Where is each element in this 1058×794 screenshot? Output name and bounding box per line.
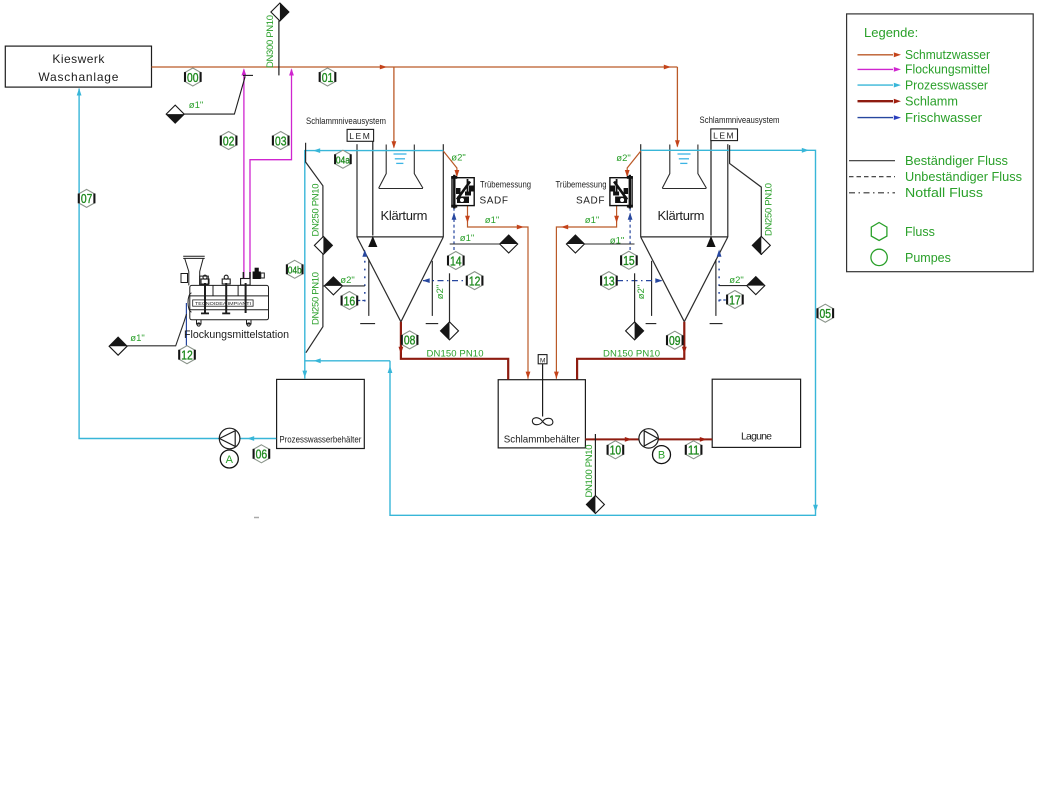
svg-text:Klärturm: Klärturm: [658, 208, 705, 223]
valve ø1 near node 00: [166, 105, 184, 123]
legend dash-dot line sample: [849, 186, 983, 200]
Flockungsmittelstation unit: [181, 256, 269, 326]
node 09: [667, 331, 683, 349]
svg-text:ø2": ø2": [636, 285, 647, 299]
node 07: [79, 189, 95, 207]
tower 1 probe rod left: [360, 260, 375, 324]
tank Lagune: [712, 379, 800, 447]
node 03: [273, 132, 289, 150]
valve ø2 drain tower 2: [747, 277, 765, 295]
valve ø1 below SADF 2: [566, 235, 584, 253]
svg-text:12: 12: [469, 274, 481, 288]
station brand plate: [193, 300, 253, 306]
svg-text:ø1": ø1": [189, 100, 203, 111]
wire Prozesswasser tower 1 overflow: [305, 151, 444, 379]
wire ø2 sample line tower 2 to SADF 2: [627, 151, 641, 177]
svg-text:Schlamm: Schlamm: [905, 94, 958, 108]
wire ø1 sample branch near node 00: [184, 75, 254, 114]
wire ø2 drain branch tower 2: [719, 285, 765, 287]
tower 1 LEM box: [347, 129, 374, 141]
svg-text:15: 15: [623, 254, 635, 268]
svg-text:ø1": ø1": [460, 233, 474, 244]
wire ø1 line SADF 1 to Schlammbehälter: [468, 206, 529, 379]
svg-text:Frischwasser: Frischwasser: [905, 111, 982, 125]
legend circle symbol: [871, 249, 951, 265]
station hopper: [183, 255, 205, 257]
legend dashed line sample: [849, 170, 1022, 184]
tower 1 feed well: [379, 145, 423, 189]
legend box: [847, 14, 1034, 272]
svg-text:Fluss: Fluss: [905, 225, 935, 239]
node 15: [621, 251, 637, 269]
node 12 at cone 1: [467, 272, 483, 290]
node 04b: [287, 260, 303, 278]
svg-text:DN150 PN10: DN150 PN10: [427, 349, 484, 360]
valve ø2 drain tower 1: [324, 277, 342, 295]
node 10: [608, 441, 624, 459]
svg-text:LEM: LEM: [713, 131, 735, 141]
svg-text:Kieswerk: Kieswerk: [52, 52, 105, 66]
svg-text:ø1": ø1": [485, 215, 499, 226]
legend solid line sample: [849, 154, 1008, 168]
stray mark: [254, 517, 259, 519]
svg-text:ø2": ø2": [616, 153, 630, 164]
wire Frischwasser supply to station: [185, 303, 187, 346]
svg-text:DN250 PN10: DN250 PN10: [764, 183, 775, 236]
svg-text:DN150 PN10: DN150 PN10: [603, 349, 660, 360]
tower 1 water level symbol: [394, 154, 407, 163]
legend Schmutzwasser sample: [858, 48, 991, 62]
svg-text:Klärturm: Klärturm: [381, 208, 428, 223]
legend hexagon symbol: [871, 223, 935, 241]
svg-text:Flockungsmittelstation: Flockungsmittelstation: [184, 329, 289, 341]
wire DN250 overflow pipe tower 1: [306, 143, 323, 353]
node 04a: [335, 150, 351, 168]
svg-text:11: 11: [688, 444, 700, 458]
node 17: [727, 291, 743, 309]
svg-text:DN250 PN10: DN250 PN10: [311, 184, 322, 237]
svg-text:SADF: SADF: [576, 196, 605, 207]
svg-text:04b: 04b: [288, 265, 302, 277]
svg-text:Schmutzwasser: Schmutzwasser: [905, 48, 990, 62]
node 16: [342, 292, 358, 310]
svg-text:00: 00: [187, 71, 199, 85]
svg-text:03: 03: [275, 134, 287, 148]
svg-text:08: 08: [404, 334, 416, 348]
svg-text:Legende:: Legende:: [864, 25, 918, 40]
svg-text:Flockungsmittel: Flockungsmittel: [905, 63, 990, 77]
wire Prozesswasser return to Kieswerk via pump A: [79, 89, 276, 439]
svg-text:LEM: LEM: [349, 131, 371, 141]
svg-text:07: 07: [81, 192, 93, 206]
node 05: [818, 304, 834, 322]
svg-text:Prozesswasserbehälter: Prozesswasserbehälter: [279, 435, 361, 446]
svg-text:TECNOIDEA IMPIANTI: TECNOIDEA IMPIANTI: [195, 301, 251, 306]
wire ø1 line below SADF 1: [450, 243, 500, 245]
svg-text:12: 12: [181, 349, 193, 363]
wire ø1 line SADF 2 to Schlammbehälter: [556, 206, 616, 379]
svg-text:Trübemessung: Trübemessung: [556, 180, 607, 191]
svg-text:ø1": ø1": [130, 333, 144, 344]
node 14: [448, 252, 464, 270]
svg-text:Lagune: Lagune: [741, 431, 772, 443]
svg-text:Schlammniveausystem: Schlammniveausystem: [306, 116, 386, 126]
svg-text:Waschanlage: Waschanlage: [38, 70, 118, 84]
svg-text:Beständiger Fluss: Beständiger Fluss: [905, 154, 1008, 168]
wire Schlamm Schlammbehälter to Lagune via pump B: [585, 438, 712, 440]
node 02: [221, 132, 237, 150]
station feet: [197, 320, 202, 324]
pump B: [639, 429, 658, 448]
svg-text:Unbeständiger Fluss: Unbeständiger Fluss: [905, 170, 1022, 184]
svg-text:DN100 PN10: DN100 PN10: [584, 445, 595, 498]
valve ø2 drain cone 1: [441, 322, 459, 340]
svg-text:10: 10: [610, 444, 622, 458]
node 08: [402, 331, 418, 349]
node 11: [686, 441, 702, 459]
svg-text:17: 17: [729, 293, 741, 307]
tower 2 feed well: [662, 145, 706, 189]
box Kieswerk Waschanlage: [5, 46, 151, 87]
valve DN250 tower 2: [752, 236, 770, 254]
instrument SADF 2 (Trübemessung): [610, 175, 633, 209]
wire DN250 overflow pipe tower 2: [730, 145, 762, 255]
station tank body: [190, 285, 269, 319]
wire Flockungsmittel line 02: [243, 70, 245, 280]
svg-text:16: 16: [344, 294, 356, 308]
wire Frischwasser dashed SADF 2 drain: [629, 208, 631, 252]
wire node 17 connector: [719, 299, 727, 301]
valve DN250 tower 1: [314, 236, 332, 254]
wire DN100 drain Schlammbehälter: [594, 434, 596, 496]
node 01: [320, 68, 336, 86]
clarifier tower 1 (left Klärturm) walls: [357, 144, 443, 322]
svg-text:Prozesswasser: Prozesswasser: [905, 78, 988, 92]
svg-text:A: A: [226, 454, 234, 466]
pipe size labels green: [130, 15, 774, 498]
tank Schlammbehälter: [498, 380, 585, 448]
svg-text:ø2": ø2": [435, 285, 446, 299]
svg-text:Notfall Fluss: Notfall Fluss: [905, 186, 983, 200]
svg-text:05: 05: [820, 307, 832, 321]
svg-text:ø1": ø1": [585, 215, 599, 226]
legend Frischwasser sample: [858, 111, 983, 125]
tower 2 level sensor rod: [710, 141, 712, 236]
svg-text:M: M: [540, 357, 545, 364]
svg-text:ø2": ø2": [729, 275, 743, 286]
svg-text:Schlammbehälter: Schlammbehälter: [504, 434, 580, 446]
pump A tag circle: [220, 450, 238, 468]
tank Prozesswasserbehälter: [277, 379, 365, 448]
legend Prozesswasser sample: [858, 78, 989, 92]
valve DN300 top: [271, 3, 289, 21]
wire Schmutzwasser branch to tower 2: [676, 67, 678, 147]
legend Schlamm sample: [858, 94, 959, 108]
pump A: [219, 428, 240, 449]
svg-text:13: 13: [603, 274, 615, 288]
svg-text:09: 09: [669, 334, 681, 348]
valve ø1 station: [109, 337, 127, 355]
wire node 16 connector: [358, 300, 365, 302]
wire Notfall dash-dot into cone 1 (node 12): [423, 280, 467, 282]
clarifier tower 2 (right Klärturm) walls: [641, 144, 728, 322]
node 13: [601, 272, 617, 290]
label Kieswerk Waschanlage: [38, 52, 118, 84]
node 00: [185, 68, 201, 86]
wire Prozesswasser tower 2 overflow loop: [390, 150, 816, 515]
wire Notfall dash-dot into cone 2 (node 13): [617, 280, 662, 282]
station mixers: [201, 272, 250, 313]
svg-text:06: 06: [256, 448, 268, 462]
svg-text:Schlammniveausystem: Schlammniveausystem: [700, 115, 780, 125]
wire ø1 water line to station: [127, 314, 186, 346]
legend Flockungsmittel sample: [858, 63, 991, 77]
svg-text:B: B: [658, 450, 665, 462]
tower 1 probe rod right: [426, 261, 439, 324]
svg-text:SADF: SADF: [479, 196, 508, 207]
wire DN300 vent line: [278, 21, 280, 76]
agitator M-box on Schlammbehälter: [538, 355, 547, 417]
node 12 at station: [179, 346, 195, 364]
pump B tag circle: [653, 446, 671, 464]
svg-text:Pumpes: Pumpes: [905, 251, 951, 265]
valve ø2 drain cone 2: [626, 322, 644, 340]
instrument SADF 1 (Trübemessung): [451, 175, 474, 209]
wire Notfall dotted vertical cone 1: [364, 253, 366, 302]
svg-text:DN250 PN10: DN250 PN10: [311, 272, 322, 325]
station motor block: [253, 272, 261, 280]
tower 2 probe rod left: [646, 261, 657, 324]
wire ø2 drain line cone 2: [634, 273, 636, 322]
wire Schmutzwasser branch to tower 1: [393, 67, 395, 148]
wire ø2 drain branch tower 1: [323, 285, 365, 287]
wire ø2 drain line cone 1: [449, 273, 451, 322]
wire Notfall dotted vertical cone 2: [718, 253, 720, 302]
tower 2 water level symbol: [678, 154, 691, 163]
svg-text:Trübemessung: Trübemessung: [480, 180, 531, 191]
wire ø2 sample line tower 1 to SADF 1: [443, 151, 457, 177]
agitator propeller: [532, 418, 553, 426]
svg-text:01: 01: [322, 71, 334, 85]
svg-text:14: 14: [450, 254, 462, 268]
svg-text:04a: 04a: [336, 155, 350, 167]
tower 1 level sensor rod: [372, 141, 374, 235]
svg-text:ø2": ø2": [451, 153, 465, 164]
node 06: [254, 445, 270, 463]
wire Flockungsmittel line 03: [250, 70, 292, 279]
wire Frischwasser dashed SADF 1 drain: [453, 208, 455, 252]
wire Schlamm tower 2 to Schlammbehälter: [577, 322, 684, 380]
wire ø1 line below SADF 2: [584, 243, 635, 245]
tower 2 probe rod right: [710, 260, 723, 324]
svg-text:ø1": ø1": [610, 236, 624, 247]
svg-text:ø2": ø2": [340, 275, 354, 286]
wire Schlamm tower 1 to Schlammbehälter: [401, 322, 508, 380]
tower 2 LEM box: [711, 129, 738, 141]
wire Prozesswasser collector branch: [305, 360, 390, 362]
valve ø1 below SADF 1: [500, 235, 518, 253]
svg-text:02: 02: [223, 134, 235, 148]
svg-text:DN300 PN10: DN300 PN10: [265, 15, 276, 68]
wire Schmutzwasser main line: [152, 66, 678, 68]
valve DN100 drain: [586, 496, 604, 514]
